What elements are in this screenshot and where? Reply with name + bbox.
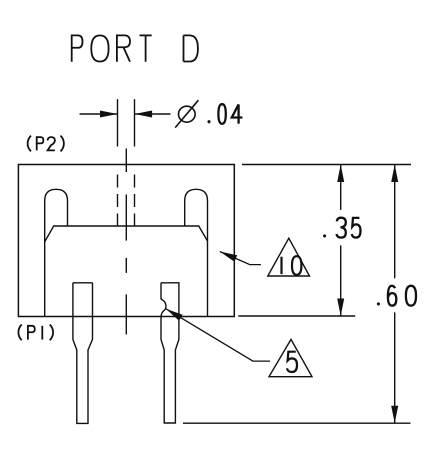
triangle flag 10 <box>268 238 310 276</box>
triangle flag 5 <box>269 339 312 376</box>
right guide post (rounded) <box>185 189 208 316</box>
leader arrow to pin crimp (note 5) <box>166 309 270 361</box>
vertical centerline (dashed) <box>125 149 127 335</box>
hidden line right edge of pin hole (dashed) <box>134 175 136 227</box>
dimension text .35 <box>323 218 360 238</box>
hidden line left edge of pin hole (dashed) <box>117 175 119 227</box>
label text (P1) <box>18 325 53 341</box>
dimension text .60 <box>377 286 416 306</box>
leader arrow to body edge (note 10) <box>220 252 261 265</box>
title text "PORT D" <box>72 35 198 61</box>
diameter symbol <box>175 100 198 127</box>
shroud top edge with chamfers <box>45 226 208 242</box>
dimension line right tail with arrow, dia .04 <box>135 111 171 118</box>
top extension line <box>242 164 411 166</box>
connector body outline (housing rectangle) <box>18 165 234 317</box>
flag text 10 <box>282 256 302 275</box>
flag text 5 <box>287 352 297 372</box>
extension line left (pin hole left edge) <box>117 99 119 146</box>
label text (P2) <box>28 136 64 152</box>
extension line right (pin hole right edge) <box>134 99 136 146</box>
dimension text .04 <box>207 104 242 124</box>
left guide post (rounded) <box>45 189 68 316</box>
dimension line .60 with arrows <box>391 165 398 424</box>
right pin with crimp notch (note 5 target) <box>161 283 179 423</box>
dimension line left tail with arrow, dia .04 <box>80 111 118 118</box>
dimension line .35 with arrows <box>337 165 344 317</box>
left pin (wide body, taper, lead) <box>73 283 93 424</box>
bottom extension line at pin tips (.60) <box>183 422 411 424</box>
extension line at body bottom (.35) <box>238 315 355 317</box>
